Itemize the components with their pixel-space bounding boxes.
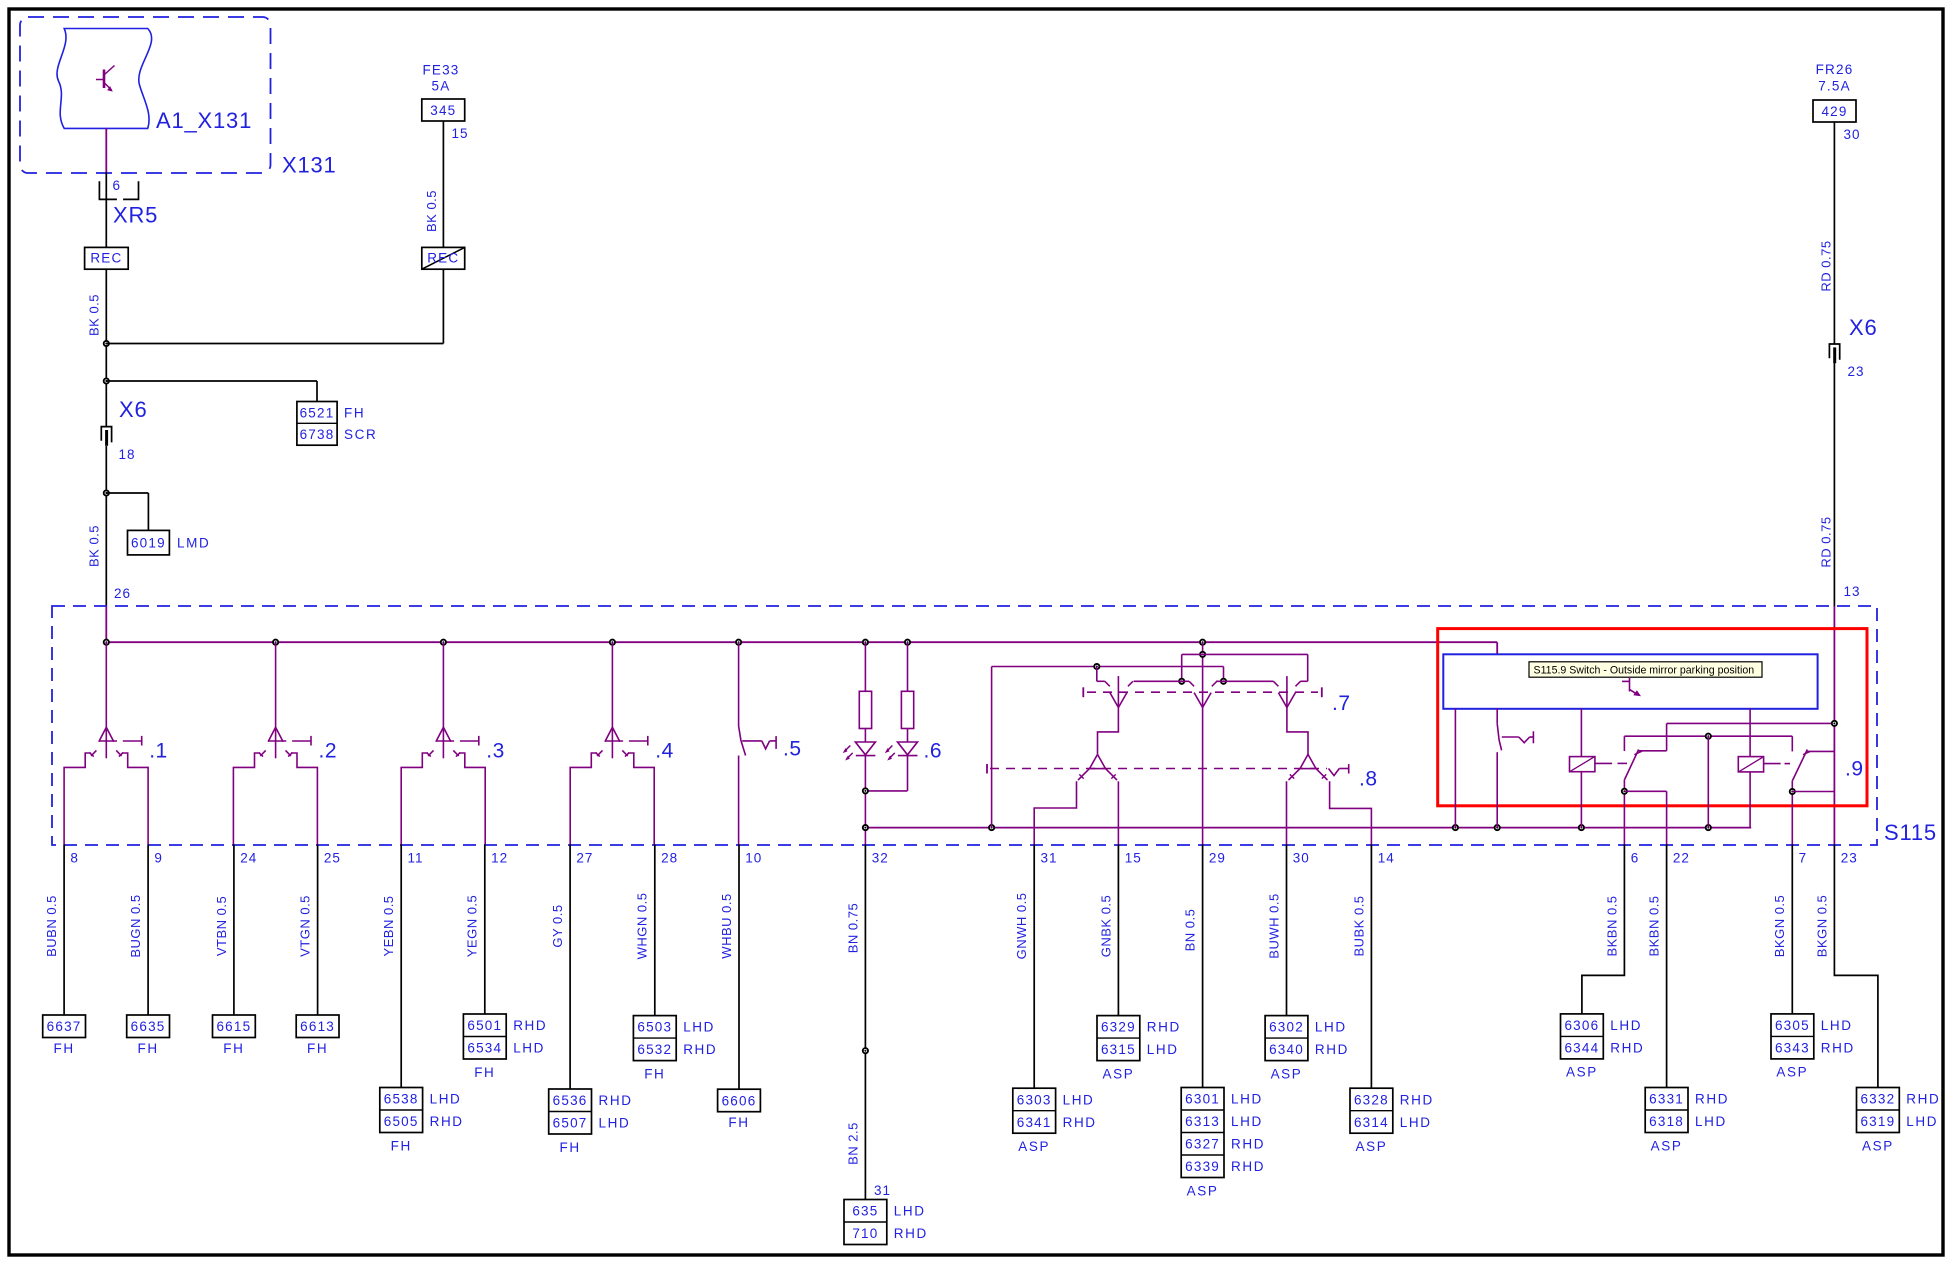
svg-text:6343: 6343 bbox=[1775, 1040, 1810, 1055]
terminal box 6019 LMD bbox=[128, 530, 170, 555]
switch S115.2 right contact bbox=[286, 750, 291, 756]
lower bus junction x=991.6 bbox=[989, 825, 994, 830]
splice REC (left) bbox=[85, 247, 129, 269]
connector X6 pin 23 symbol bbox=[1829, 344, 1839, 360]
switch S115.2 arrow head bbox=[268, 727, 283, 742]
supply bus wire bbox=[106, 641, 1497, 643]
svg-text:RD 0.75: RD 0.75 bbox=[1819, 240, 1834, 291]
LED output wires bbox=[864, 756, 866, 845]
svg-text:RHD: RHD bbox=[683, 1042, 717, 1057]
svg-text:6534: 6534 bbox=[467, 1041, 502, 1056]
svg-text:LHD: LHD bbox=[1821, 1018, 1853, 1033]
.7 contact row wires bbox=[1097, 680, 1105, 682]
wire pin26 into S115 (purple) bbox=[105, 606, 107, 642]
svg-text:FH: FH bbox=[307, 1041, 328, 1056]
lower bus junction x=1708.3 bbox=[1706, 825, 1711, 830]
lower bus junction x=865.4 bbox=[863, 825, 868, 830]
svg-text:25: 25 bbox=[324, 851, 341, 866]
wire fuse345 down bbox=[442, 121, 444, 247]
pin 11 wire bbox=[400, 845, 402, 1088]
svg-text:31: 31 bbox=[1041, 851, 1058, 866]
svg-text:RHD: RHD bbox=[1315, 1042, 1349, 1057]
svg-text:FH: FH bbox=[137, 1041, 158, 1056]
svg-text:FH: FH bbox=[223, 1041, 244, 1056]
svg-text:ASP: ASP bbox=[1187, 1183, 1219, 1198]
svg-text:RHD: RHD bbox=[1231, 1159, 1265, 1174]
svg-text:.6: .6 bbox=[924, 740, 943, 763]
wire to fuse FE33 branch bbox=[106, 343, 443, 345]
svg-text:.8: .8 bbox=[1359, 768, 1378, 791]
svg-text:LHD: LHD bbox=[894, 1204, 926, 1219]
transistor symbol inside A1_X131 bbox=[103, 70, 106, 89]
junction .7 top bbox=[1200, 652, 1205, 657]
switch S115.3 arrow head bbox=[436, 727, 451, 742]
contact 1 pivot wires to pins 6/22 bbox=[1623, 780, 1625, 845]
svg-text:BK 0.5: BK 0.5 bbox=[424, 190, 439, 232]
svg-text:BKGN 0.5: BKGN 0.5 bbox=[1772, 895, 1787, 958]
terminal 6606 box bbox=[718, 1089, 761, 1112]
switch .7 middle wire from bus to pin 29 bbox=[1202, 642, 1204, 844]
svg-text:RHD: RHD bbox=[1231, 1137, 1265, 1152]
svg-text:ASP: ASP bbox=[1102, 1066, 1134, 1081]
svg-text:12: 12 bbox=[491, 851, 508, 866]
svg-text:6305: 6305 bbox=[1775, 1018, 1810, 1033]
bus junction x=865.4 bbox=[863, 640, 868, 645]
splice REC (crossed) bbox=[422, 247, 465, 269]
switch .5 blade bbox=[739, 726, 746, 756]
switch S115.4 actuator bbox=[629, 740, 648, 742]
svg-text:14: 14 bbox=[1378, 851, 1395, 866]
splice junction on BN wire bbox=[863, 1048, 868, 1053]
wire X6 pin23 down bbox=[1833, 362, 1835, 606]
terminal 6538/6505 box bbox=[380, 1088, 423, 1133]
svg-text:SCR: SCR bbox=[344, 427, 377, 442]
svg-text:S115: S115 bbox=[1884, 820, 1937, 845]
svg-text:6503: 6503 bbox=[637, 1020, 672, 1035]
svg-text:7: 7 bbox=[1799, 851, 1808, 866]
svg-text:6328: 6328 bbox=[1354, 1092, 1389, 1107]
svg-text:11: 11 bbox=[408, 851, 424, 866]
pin 30 wire bbox=[1286, 845, 1288, 1016]
terminal 6635 box bbox=[127, 1015, 170, 1038]
pin 29 wire bbox=[1202, 845, 1204, 1088]
svg-text:BUBN 0.5: BUBN 0.5 bbox=[44, 895, 59, 957]
svg-text:RHD: RHD bbox=[430, 1114, 464, 1129]
svg-text:6331: 6331 bbox=[1649, 1092, 1684, 1107]
svg-text:29: 29 bbox=[1209, 851, 1226, 866]
connector XR5 pin 6 symbol bbox=[99, 181, 117, 199]
svg-text:BK 0.5: BK 0.5 bbox=[87, 294, 102, 336]
svg-text:6315: 6315 bbox=[1101, 1042, 1136, 1057]
terminal 635/710 box bbox=[844, 1200, 887, 1245]
switch S115.1 arrow head bbox=[99, 727, 114, 742]
svg-text:LHD: LHD bbox=[1231, 1092, 1263, 1107]
pin 7 wire bbox=[1791, 845, 1793, 1014]
svg-text:6340: 6340 bbox=[1269, 1042, 1304, 1057]
switch S115.1 left contact bbox=[91, 750, 96, 756]
.9 main switch upper wire bbox=[1496, 709, 1498, 724]
svg-text:6329: 6329 bbox=[1101, 1020, 1136, 1035]
svg-text:FH: FH bbox=[53, 1041, 74, 1056]
svg-text:6507: 6507 bbox=[553, 1116, 588, 1131]
lower bus junction x=1581.4 bbox=[1579, 825, 1584, 830]
svg-text:.5: .5 bbox=[783, 738, 802, 761]
terminal 6302/6340 box bbox=[1265, 1016, 1308, 1061]
svg-text:RHD: RHD bbox=[1821, 1040, 1855, 1055]
wire pin13 into S115 (purple) bbox=[1833, 606, 1835, 845]
svg-text:RHD: RHD bbox=[599, 1093, 633, 1108]
svg-text:LHD: LHD bbox=[1400, 1115, 1432, 1130]
svg-text:VTGN 0.5: VTGN 0.5 bbox=[298, 895, 313, 957]
connector X6 pin 18 symbol bbox=[101, 427, 111, 443]
switch S115.2 left contact bbox=[260, 750, 265, 756]
svg-text:6: 6 bbox=[1631, 851, 1640, 866]
tooltip S115.9 bbox=[1529, 662, 1762, 677]
svg-text:BUWH 0.5: BUWH 0.5 bbox=[1266, 893, 1281, 958]
wire XR5 to REC bbox=[105, 173, 107, 248]
svg-text:6606: 6606 bbox=[722, 1093, 757, 1108]
svg-text:32: 32 bbox=[872, 851, 889, 866]
svg-text:X6: X6 bbox=[1849, 315, 1878, 340]
svg-text:6635: 6635 bbox=[131, 1019, 166, 1034]
bus junction x=443.4 bbox=[441, 640, 446, 645]
resistor for LED left bbox=[864, 642, 866, 691]
svg-text:A1_X131: A1_X131 bbox=[156, 108, 252, 133]
.9 main switch lower wire bbox=[1496, 752, 1498, 827]
bus junction x=1202.6 bbox=[1200, 640, 1205, 645]
svg-text:ASP: ASP bbox=[1355, 1139, 1387, 1154]
svg-text:24: 24 bbox=[240, 851, 257, 866]
junction node at 343 bbox=[104, 341, 109, 346]
contact 2 blade top link bbox=[1807, 750, 1834, 752]
svg-text:ASP: ASP bbox=[1018, 1139, 1050, 1154]
svg-text:RHD: RHD bbox=[1906, 1092, 1940, 1107]
svg-text:6344: 6344 bbox=[1564, 1040, 1599, 1055]
pin 32 wire bbox=[864, 845, 866, 1200]
relay coil 1 lead + dash bbox=[1595, 762, 1612, 764]
svg-text:.2: .2 bbox=[319, 740, 338, 763]
terminal 6501/6534 box bbox=[463, 1014, 506, 1059]
pin 15 wire bbox=[1117, 845, 1119, 1016]
svg-text:WHGN 0.5: WHGN 0.5 bbox=[635, 893, 650, 960]
.9 wire blue-box left terminal to lower bus bbox=[1454, 709, 1456, 828]
pin 6 wire bbox=[1582, 845, 1625, 1014]
svg-text:30: 30 bbox=[1844, 127, 1861, 142]
switch .8 contact at x=1097.5 bbox=[1090, 754, 1098, 768]
.9 main switch blade bbox=[1497, 724, 1501, 751]
svg-text:BKBN 0.5: BKBN 0.5 bbox=[1647, 895, 1662, 956]
svg-text:RHD: RHD bbox=[1063, 1115, 1097, 1130]
svg-text:YEBN 0.5: YEBN 0.5 bbox=[381, 895, 396, 956]
lower bus wire bbox=[865, 827, 1751, 829]
.7 second link wire bbox=[992, 666, 1224, 668]
svg-text:VTBN 0.5: VTBN 0.5 bbox=[214, 896, 229, 956]
svg-text:6302: 6302 bbox=[1269, 1020, 1304, 1035]
svg-text:GY 0.5: GY 0.5 bbox=[550, 904, 565, 947]
terminal 6329/6315 box bbox=[1097, 1016, 1140, 1061]
switch S115.2 left terminal wire bbox=[233, 753, 260, 845]
svg-text:BN 0.75: BN 0.75 bbox=[845, 903, 860, 953]
.7 upper link wires bbox=[1182, 653, 1308, 655]
switch S115.2 shaft wire bbox=[275, 642, 277, 758]
bus junction x=612.4 bbox=[610, 640, 615, 645]
switch .5 lower wire bbox=[738, 756, 740, 845]
switch S115.3 right terminal wire bbox=[459, 753, 485, 845]
svg-text:BKBN 0.5: BKBN 0.5 bbox=[1604, 895, 1619, 956]
contact 1 blade top link to supply bbox=[1638, 750, 1666, 752]
svg-text:6521: 6521 bbox=[300, 405, 335, 420]
svg-text:BK 0.5: BK 0.5 bbox=[87, 525, 102, 567]
switch S115.3 base bar bbox=[437, 740, 454, 742]
switch .7 contact at x=1286.9 bbox=[1286, 676, 1288, 707]
svg-text:30: 30 bbox=[1293, 851, 1310, 866]
wire to 6521/6738 bbox=[106, 380, 317, 382]
svg-text:5A: 5A bbox=[432, 79, 451, 94]
svg-text:LHD: LHD bbox=[1906, 1114, 1938, 1129]
.8 right terminal wires bbox=[1286, 781, 1288, 844]
svg-text:26: 26 bbox=[114, 586, 131, 601]
svg-text:635: 635 bbox=[852, 1204, 878, 1219]
bus junction x=106.3 bbox=[104, 640, 109, 645]
svg-text:LHD: LHD bbox=[599, 1116, 631, 1131]
pin 27 wire bbox=[569, 845, 571, 1090]
svg-text:FH: FH bbox=[728, 1115, 749, 1130]
svg-text:BN 2.5: BN 2.5 bbox=[845, 1122, 860, 1165]
svg-text:ASP: ASP bbox=[1651, 1138, 1683, 1153]
svg-text:6301: 6301 bbox=[1185, 1092, 1220, 1107]
svg-text:6019: 6019 bbox=[131, 536, 166, 551]
svg-text:RHD: RHD bbox=[1147, 1020, 1181, 1035]
svg-text:6339: 6339 bbox=[1185, 1159, 1220, 1174]
svg-text:22: 22 bbox=[1673, 851, 1690, 866]
switch S115.1 left terminal wire bbox=[64, 753, 91, 845]
pin 23 wire bbox=[1834, 845, 1878, 1088]
switch S115.2 base bar bbox=[269, 740, 286, 742]
relay coil 2 lead + dash bbox=[1764, 763, 1781, 765]
svg-text:6306: 6306 bbox=[1564, 1018, 1599, 1033]
svg-text:BUBK 0.5: BUBK 0.5 bbox=[1351, 895, 1366, 956]
svg-text:15: 15 bbox=[1125, 851, 1142, 866]
switch S115.4 left terminal wire bbox=[570, 753, 597, 845]
pin 24 wire bbox=[233, 845, 235, 1016]
terminal 6332/6319 box bbox=[1857, 1088, 1900, 1133]
switch assembly dashed box S115 bbox=[52, 606, 1877, 845]
svg-text:8: 8 bbox=[70, 851, 79, 866]
svg-text:23: 23 bbox=[1841, 851, 1858, 866]
svg-text:RD 0.75: RD 0.75 bbox=[1819, 516, 1834, 567]
svg-text:LHD: LHD bbox=[1695, 1114, 1727, 1129]
LED right bbox=[907, 729, 909, 743]
svg-text:FH: FH bbox=[559, 1140, 580, 1155]
pin 8 wire bbox=[63, 845, 65, 1016]
svg-text:RHD: RHD bbox=[894, 1226, 928, 1241]
svg-text:.1: .1 bbox=[149, 740, 168, 763]
switch S115.3 left terminal wire bbox=[401, 753, 428, 845]
svg-text:6501: 6501 bbox=[467, 1018, 502, 1033]
switch S115.1 shaft wire bbox=[105, 642, 107, 758]
switch S115.4 right contact bbox=[622, 750, 627, 756]
svg-text:WHBU 0.5: WHBU 0.5 bbox=[719, 893, 734, 958]
svg-text:LHD: LHD bbox=[1147, 1042, 1179, 1057]
svg-text:FH: FH bbox=[644, 1066, 665, 1081]
svg-text:RHD: RHD bbox=[1400, 1092, 1434, 1107]
svg-text:429: 429 bbox=[1821, 104, 1847, 119]
cursor icon bbox=[1629, 677, 1631, 692]
svg-text:6341: 6341 bbox=[1017, 1115, 1052, 1130]
svg-text:9: 9 bbox=[154, 851, 163, 866]
svg-text:X6: X6 bbox=[119, 397, 148, 422]
svg-text:FE33: FE33 bbox=[422, 63, 459, 78]
svg-text:6318: 6318 bbox=[1649, 1114, 1684, 1129]
resistor for LED right bbox=[907, 642, 909, 691]
switch S115.3 shaft wire bbox=[442, 642, 444, 758]
switch .7 contact at x=1202.6 bbox=[1194, 693, 1203, 708]
switch S115.3 actuator bbox=[460, 740, 479, 742]
terminal 6301/6313/6327/6339 box bbox=[1181, 1088, 1224, 1178]
bus junction x=738.6 bbox=[736, 640, 741, 645]
.8 actuator bbox=[1329, 769, 1340, 776]
svg-text:LHD: LHD bbox=[1315, 1020, 1347, 1035]
wire REC down to X6 bbox=[105, 269, 107, 426]
svg-text:.4: .4 bbox=[655, 740, 674, 763]
terminal 6615 box bbox=[213, 1015, 256, 1038]
bus junction x=275.6 bbox=[273, 640, 278, 645]
svg-text:RHD: RHD bbox=[513, 1018, 547, 1033]
svg-text:ASP: ASP bbox=[1271, 1066, 1303, 1081]
pin 22 wire bbox=[1666, 845, 1668, 1088]
svg-text:6319: 6319 bbox=[1860, 1114, 1895, 1129]
switch .5 actuator bbox=[742, 740, 762, 742]
switch S115.1 right contact bbox=[116, 750, 121, 756]
svg-text:GNBK 0.5: GNBK 0.5 bbox=[1098, 895, 1113, 958]
svg-text:GNWH 0.5: GNWH 0.5 bbox=[1014, 893, 1029, 960]
svg-text:LHD: LHD bbox=[683, 1020, 715, 1035]
svg-text:6327: 6327 bbox=[1185, 1137, 1220, 1152]
terminal box 6521 FH / 6738 SCR bbox=[297, 402, 337, 446]
LED left bbox=[864, 729, 866, 743]
svg-text:18: 18 bbox=[119, 447, 136, 462]
svg-text:6613: 6613 bbox=[300, 1019, 335, 1034]
.8 left terminal wires bbox=[1034, 781, 1076, 844]
svg-text:RHD: RHD bbox=[1695, 1092, 1729, 1107]
svg-text:LHD: LHD bbox=[1231, 1114, 1263, 1129]
switch S115.4 shaft wire bbox=[611, 642, 613, 758]
svg-text:REC: REC bbox=[427, 251, 459, 266]
svg-text:6637: 6637 bbox=[47, 1019, 82, 1034]
svg-text:FH: FH bbox=[344, 405, 365, 420]
switch S115.4 arrow head bbox=[605, 727, 620, 742]
contact 2 blade bbox=[1793, 750, 1808, 781]
terminal 6613 box bbox=[296, 1015, 339, 1038]
terminal 6637 box bbox=[43, 1015, 86, 1038]
terminal 6306/6344 box bbox=[1561, 1014, 1604, 1059]
svg-text:BUGN 0.5: BUGN 0.5 bbox=[128, 894, 143, 957]
cloud outline of A1_X131 module bbox=[57, 29, 152, 129]
svg-text:6314: 6314 bbox=[1354, 1115, 1389, 1130]
wire X6 pin18 down bbox=[105, 446, 107, 606]
pin 28 wire bbox=[654, 845, 656, 1016]
fuse box 345 bbox=[422, 99, 465, 121]
svg-text:7.5A: 7.5A bbox=[1818, 79, 1851, 94]
contact 2 pivot wires bbox=[1791, 781, 1793, 845]
fuse box 429 bbox=[1813, 100, 1856, 122]
svg-text:6505: 6505 bbox=[384, 1114, 419, 1129]
wire from A1_X131 to XR5 (purple inside box) bbox=[105, 128, 107, 172]
svg-text:LMD: LMD bbox=[177, 536, 210, 551]
svg-text:.3: .3 bbox=[486, 740, 505, 763]
wire to 6019 bbox=[106, 492, 148, 494]
switch S115.2 actuator bbox=[292, 740, 311, 742]
switch S115.1 base bar bbox=[100, 740, 117, 742]
.7 contact ticks bbox=[1105, 681, 1110, 686]
junction node at 381 bbox=[104, 378, 109, 383]
svg-text:LHD: LHD bbox=[1610, 1018, 1642, 1033]
lower bus junction x=1455.4 bbox=[1453, 825, 1458, 830]
svg-text:S115.9 Switch - Outside mirror: S115.9 Switch - Outside mirror parking p… bbox=[1534, 664, 1755, 676]
red highlight box bbox=[1438, 629, 1867, 806]
relay coil 1 bbox=[1580, 709, 1582, 757]
svg-text:10: 10 bbox=[745, 851, 762, 866]
pin 12 wire bbox=[484, 845, 486, 1015]
.9 main switch actuator bbox=[1502, 736, 1519, 738]
svg-text:28: 28 bbox=[661, 851, 678, 866]
pin 25 wire bbox=[317, 845, 319, 1016]
svg-text:15: 15 bbox=[452, 126, 469, 141]
svg-text:6538: 6538 bbox=[384, 1092, 419, 1107]
junction LED merge bbox=[863, 788, 868, 793]
svg-text:REC: REC bbox=[90, 251, 122, 266]
svg-text:345: 345 bbox=[430, 103, 456, 118]
svg-text:6532: 6532 bbox=[637, 1042, 672, 1057]
svg-text:6536: 6536 bbox=[553, 1093, 588, 1108]
.7 left down-step wire bbox=[1098, 708, 1119, 755]
svg-text:6615: 6615 bbox=[216, 1019, 251, 1034]
svg-text:RHD: RHD bbox=[1610, 1040, 1644, 1055]
svg-text:LHD: LHD bbox=[1063, 1092, 1095, 1107]
svg-text:BKGN 0.5: BKGN 0.5 bbox=[1814, 895, 1829, 958]
switch S115.4 base bar bbox=[606, 740, 623, 742]
contact 1 blade bbox=[1625, 750, 1639, 780]
switch S115.3 left contact bbox=[428, 750, 433, 756]
terminal 6303/6341 box bbox=[1013, 1088, 1056, 1133]
svg-text:FH: FH bbox=[474, 1065, 495, 1080]
control unit dashed box X131 bbox=[20, 17, 271, 173]
svg-text:.9: .9 bbox=[1845, 758, 1864, 781]
pin 14 wire bbox=[1370, 845, 1372, 1089]
switch S115.1 actuator bbox=[123, 740, 142, 742]
terminal 6536/6507 box bbox=[549, 1089, 592, 1134]
link line h2 bbox=[1624, 735, 1792, 737]
svg-text:BN 0.5: BN 0.5 bbox=[1183, 909, 1198, 952]
junction node at 493 bbox=[104, 490, 109, 495]
pin 31 wire bbox=[1033, 845, 1035, 1089]
pin 9 wire bbox=[147, 845, 149, 1016]
svg-text:31: 31 bbox=[874, 1183, 891, 1198]
svg-text:LHD: LHD bbox=[430, 1092, 462, 1107]
switch .8 contact at x=1308 bbox=[1300, 754, 1308, 768]
wire fuse429 down bbox=[1833, 122, 1835, 344]
svg-text:6313: 6313 bbox=[1185, 1114, 1220, 1129]
terminal 6331/6318 box bbox=[1645, 1088, 1688, 1133]
.7 mechanical linkage dashed bbox=[1087, 691, 1318, 693]
pin 10 wire bbox=[738, 845, 740, 1090]
svg-text:LHD: LHD bbox=[513, 1041, 545, 1056]
terminal 6328/6314 box bbox=[1350, 1088, 1393, 1133]
switch S115.1 right terminal wire bbox=[122, 753, 148, 845]
svg-text:6: 6 bbox=[113, 178, 122, 193]
.7 right down-step wire bbox=[1287, 708, 1308, 755]
terminal 6305/6343 box bbox=[1771, 1014, 1814, 1059]
